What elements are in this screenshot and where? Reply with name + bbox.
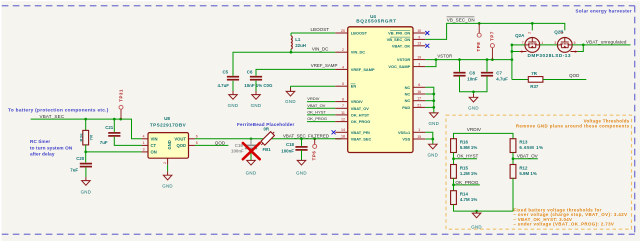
svg-text:GND: GND xyxy=(296,171,307,176)
U4 pin 4 VREF_SAMP xyxy=(335,68,347,70)
wires around Q2A/Q2B xyxy=(512,44,525,46)
wire pin9 up to VB_SEC_ON rail xyxy=(425,23,565,39)
svg-text:0R: 0R xyxy=(264,127,270,132)
wire EN to GND xyxy=(291,85,336,87)
svg-text:OK_HYST: OK_HYST xyxy=(457,153,479,158)
U8 pin 2 GND bottom xyxy=(167,158,169,165)
U4 pin 8 VRDIV xyxy=(335,101,347,103)
svg-text:To battery (protection compone: To battery (protection components etc.) xyxy=(8,108,109,113)
svg-text:5.9M 1%: 5.9M 1% xyxy=(519,171,536,176)
U4 pin 3 VOC_SAMP xyxy=(413,66,425,68)
svg-text:TP7: TP7 xyxy=(489,31,494,41)
svg-text:VBAT_PRI: VBAT_PRI xyxy=(351,130,370,135)
svg-text:6.65M 1%: 6.65M 1% xyxy=(519,145,543,150)
U4 pin 20 LBOOST xyxy=(335,32,347,34)
op U4 BQ25505RGRT body xyxy=(348,27,413,153)
resistor R16 xyxy=(451,139,457,153)
U4 pin 21 PAD xyxy=(413,106,425,108)
svg-text:GND: GND xyxy=(428,121,439,126)
capacitor C5 xyxy=(227,77,239,80)
svg-text:QOD: QOD xyxy=(215,140,225,145)
capacitor C18 xyxy=(300,137,303,140)
U4 pin 15 VSS xyxy=(413,138,425,140)
ground below C5 xyxy=(232,81,234,91)
wire VREF_SAMP xyxy=(256,69,335,75)
svg-text:7: 7 xyxy=(342,104,344,108)
svg-text:7R: 7R xyxy=(531,71,537,76)
svg-text:OK_PROG: OK_PROG xyxy=(351,119,370,124)
svg-text:4.7uF: 4.7uF xyxy=(218,83,230,88)
label QOD stub xyxy=(195,144,229,146)
svg-text:6: 6 xyxy=(196,134,198,138)
svg-text:TPS22917DBV: TPS22917DBV xyxy=(150,122,187,127)
inductor L1 xyxy=(291,32,335,34)
U4 pin 5 EN xyxy=(335,85,347,87)
ground below C7/C8 xyxy=(472,90,475,93)
svg-text:5: 5 xyxy=(574,41,576,45)
orange dashed box Voltage Thresholds xyxy=(446,115,632,229)
svg-text:R36: R36 xyxy=(78,133,83,142)
resistor R36 xyxy=(85,119,87,130)
U4 pin 1 VSS=1 xyxy=(413,131,425,133)
svg-text:1: 1 xyxy=(418,128,420,132)
svg-text:Remove GND plane around these: Remove GND plane around these components xyxy=(516,123,630,128)
svg-text:4.7uF: 4.7uF xyxy=(496,76,508,81)
svg-text:L1: L1 xyxy=(295,37,301,42)
svg-text:10nF 1% C0G: 10nF 1% C0G xyxy=(244,83,273,88)
wire VIN_DC xyxy=(233,52,335,75)
svg-text:5.9M 1%: 5.9M 1% xyxy=(460,145,477,150)
resistor R13 xyxy=(512,138,514,140)
svg-text:VREF_SAMP: VREF_SAMP xyxy=(311,63,338,68)
svg-text:2: 2 xyxy=(342,48,344,52)
svg-text:C6: C6 xyxy=(247,69,253,74)
svg-text:TP8: TP8 xyxy=(476,42,481,52)
svg-text:R37: R37 xyxy=(530,84,539,89)
pin 8 stub and jumper xyxy=(519,51,526,53)
DNP red X over C19 xyxy=(243,143,260,159)
node ON / wire to U8 ON pin xyxy=(84,151,87,154)
testpoint TP6 xyxy=(313,137,316,140)
svg-text:BQ25505RGRT: BQ25505RGRT xyxy=(356,18,397,23)
svg-text:GND: GND xyxy=(162,183,173,188)
wire Q2A gate xyxy=(531,23,533,30)
testpoint TP7 xyxy=(491,58,494,61)
svg-text:C7: C7 xyxy=(496,70,502,75)
svg-text:PAD: PAD xyxy=(402,105,410,110)
U8 pin 3 ON xyxy=(142,151,148,153)
svg-text:EN: EN xyxy=(351,84,357,89)
junction TP8 xyxy=(478,22,481,25)
U4 pin 18 VBAT_SEC xyxy=(335,138,347,140)
svg-text:OK_HYST: OK_HYST xyxy=(307,110,326,115)
U8 pin 4 VIN xyxy=(142,138,148,140)
svg-text:5: 5 xyxy=(342,82,344,86)
pin 6 stub and jumper xyxy=(571,51,578,53)
ground below U8 xyxy=(167,165,169,172)
ground below VSS xyxy=(432,143,434,145)
svg-text:VIN: VIN xyxy=(151,136,158,141)
svg-text:C5: C5 xyxy=(223,69,229,74)
svg-text:8: 8 xyxy=(342,98,344,102)
svg-text:12: 12 xyxy=(341,118,345,122)
U4 pin 16 NC xyxy=(413,93,425,95)
resistor R14 xyxy=(451,191,457,205)
capacitor C20 xyxy=(85,152,87,163)
svg-text:4: 4 xyxy=(143,134,145,138)
svg-text:LBOOST: LBOOST xyxy=(351,31,368,36)
svg-text:VRDIV: VRDIV xyxy=(307,96,320,101)
svg-text:13: 13 xyxy=(417,42,421,46)
svg-text:VBAT_SEC: VBAT_SEC xyxy=(40,114,65,119)
svg-text:VB_SEC_ON: VB_SEC_ON xyxy=(447,18,475,23)
svg-text:LBOOST: LBOOST xyxy=(311,27,330,32)
testpoint TP31 xyxy=(120,109,122,119)
transistor Q2B xyxy=(557,38,572,53)
U4 pin 9 VB_SEC_ON xyxy=(413,38,425,40)
svg-text:VSS: VSS xyxy=(402,137,410,142)
svg-text:17: 17 xyxy=(417,97,421,101)
svg-text:NC: NC xyxy=(405,85,411,90)
NC pins to GND xyxy=(425,87,434,113)
svg-text:U8: U8 xyxy=(164,116,170,121)
capacitor C21 xyxy=(113,119,115,132)
svg-text:VREF_SAMP: VREF_SAMP xyxy=(351,67,375,72)
svg-text:VBAT_OV: VBAT_OV xyxy=(307,103,325,108)
U8 pin 5 QOD xyxy=(189,144,195,146)
svg-text:GND: GND xyxy=(228,103,239,108)
svg-text:Q2A: Q2A xyxy=(515,33,525,38)
svg-text:VBAT_OK: VBAT_OK xyxy=(392,43,410,48)
svg-text:NC: NC xyxy=(405,92,411,97)
svg-text:GND: GND xyxy=(427,152,438,157)
svg-text:4.7M 1%: 4.7M 1% xyxy=(460,197,477,202)
svg-text:4: 4 xyxy=(342,65,344,69)
svg-text:GND: GND xyxy=(468,106,479,111)
U4 pin 6 NC xyxy=(413,86,425,88)
svg-text:OK_PROG: OK_PROG xyxy=(307,116,327,121)
svg-text:DMP3028LSD-13: DMP3028LSD-13 xyxy=(528,53,572,58)
svg-text:R14: R14 xyxy=(460,192,469,197)
svg-text:OK_PROG: OK_PROG xyxy=(455,180,479,185)
svg-text:NC: NC xyxy=(405,98,411,103)
svg-text:10nF: 10nF xyxy=(467,76,478,81)
ground below C6 xyxy=(255,81,257,91)
U4 pin 7 VBAT_OV xyxy=(335,107,347,109)
svg-text:22uH: 22uH xyxy=(295,43,306,48)
U8 pin 1 CT xyxy=(142,144,148,146)
svg-text:FB1: FB1 xyxy=(263,147,272,152)
wire VSTOR rail xyxy=(425,59,512,61)
svg-text:100nF: 100nF xyxy=(281,149,294,154)
svg-text:2: 2 xyxy=(163,162,167,164)
svg-text:R15: R15 xyxy=(460,165,469,170)
svg-text:R13: R13 xyxy=(519,140,528,145)
svg-text:RC timer: RC timer xyxy=(30,139,50,144)
svg-text:VBAT_OV: VBAT_OV xyxy=(351,106,369,111)
svg-text:QOD: QOD xyxy=(176,143,186,148)
ground below divider xyxy=(475,210,478,213)
svg-text:VBAT_OV: VBAT_OV xyxy=(517,153,539,158)
svg-text:3: 3 xyxy=(554,41,556,45)
svg-text:20: 20 xyxy=(341,29,345,33)
U8 pin 6 VOUT xyxy=(189,138,195,140)
junction Q2A gate xyxy=(531,22,534,25)
transistor Q2A xyxy=(525,38,540,53)
svg-text:16: 16 xyxy=(417,90,421,94)
wire VBAT_SEC horizontal xyxy=(31,119,142,139)
capacitor C7 xyxy=(486,58,489,61)
node OK_PROG xyxy=(453,178,455,190)
U4 pin 19 VSTOR xyxy=(413,59,425,61)
resistor R15 xyxy=(451,165,457,179)
ground below C20 xyxy=(85,168,87,177)
svg-text:to turn system ON: to turn system ON xyxy=(30,145,73,150)
svg-text:VIN_DC: VIN_DC xyxy=(351,50,365,55)
U4 pin 12 OK_PROG xyxy=(335,121,347,123)
svg-text:7R: 7R xyxy=(89,134,94,140)
ground below EN xyxy=(290,86,292,88)
ground below NC xyxy=(433,112,435,114)
resistor R37 xyxy=(512,79,528,81)
resistor R12 xyxy=(510,165,516,179)
svg-text:TP31: TP31 xyxy=(119,89,124,102)
svg-text:GND: GND xyxy=(251,103,262,108)
svg-text:1: 1 xyxy=(143,141,145,145)
svg-text:18: 18 xyxy=(341,135,345,139)
svg-text:7uF: 7uF xyxy=(100,140,108,145)
svg-text:VSTOR: VSTOR xyxy=(437,53,452,58)
svg-text:VB_SEC_ON: VB_SEC_ON xyxy=(387,37,411,42)
svg-text:VBAT_unregulated: VBAT_unregulated xyxy=(586,40,627,45)
svg-text:VSTOR: VSTOR xyxy=(397,57,411,62)
svg-text:C21: C21 xyxy=(105,125,114,130)
U4 pin 2 VIN_DC xyxy=(335,51,347,53)
junction TP31 xyxy=(119,118,122,121)
svg-text:VBAT_SEC_FILTERED: VBAT_SEC_FILTERED xyxy=(283,133,329,138)
label stubs VRDIV VBAT_OV OK_HYST OK_PROG xyxy=(307,101,335,103)
svg-text:R16: R16 xyxy=(460,140,469,145)
wire VRDIV top xyxy=(454,133,514,138)
svg-text:7: 7 xyxy=(522,41,524,45)
node VBAT_OV xyxy=(512,153,514,165)
U4 pin 10 VB_PRI_ON xyxy=(413,32,425,34)
svg-text:ON: ON xyxy=(151,150,157,155)
bottom wire of divider xyxy=(454,205,514,212)
svg-text:VRDIV: VRDIV xyxy=(351,99,363,104)
wire VOC_SAMP to VSTOR xyxy=(425,60,436,67)
svg-text:3: 3 xyxy=(418,63,420,67)
svg-text:after delay: after delay xyxy=(30,152,55,157)
svg-text:4: 4 xyxy=(560,32,564,34)
svg-text:7uF: 7uF xyxy=(70,168,78,173)
capacitor C19 (DNP, crossed) xyxy=(250,137,253,140)
svg-text:VOC_SAMP: VOC_SAMP xyxy=(388,64,410,69)
svg-text:2: 2 xyxy=(527,32,531,34)
svg-text:GND: GND xyxy=(471,224,482,229)
U4 pin 11 OK_HYST xyxy=(335,114,347,116)
svg-text:VSS=1: VSS=1 xyxy=(398,130,411,135)
svg-text:11: 11 xyxy=(341,111,345,115)
svg-text:GND: GND xyxy=(246,171,257,176)
svg-text:QOD: QOD xyxy=(569,73,579,78)
U4 pin 13 VBAT_OK xyxy=(413,45,425,47)
no-connect X on pin 14 xyxy=(332,130,336,134)
no-connect X pin 10 xyxy=(425,31,429,35)
svg-text:TP6: TP6 xyxy=(311,151,316,161)
svg-text:19: 19 xyxy=(417,56,421,60)
op U8 load switch TPS22917DBV body xyxy=(148,133,189,159)
wire U8 VOUT to U4 VBAT_SEC xyxy=(195,138,341,140)
svg-text:9: 9 xyxy=(418,35,420,39)
capacitor C8 xyxy=(458,58,461,61)
sheet dashed border xyxy=(2,5,635,7)
svg-text:10: 10 xyxy=(417,29,421,33)
ground below C18 xyxy=(301,159,303,161)
svg-text:14: 14 xyxy=(341,128,345,132)
testpoint TP8 xyxy=(478,23,480,33)
svg-text:VOUT: VOUT xyxy=(174,136,186,141)
svg-text:15: 15 xyxy=(417,135,421,139)
svg-text:CT: CT xyxy=(151,143,157,148)
svg-text:1.2M 1%: 1.2M 1% xyxy=(460,171,477,176)
svg-text:3: 3 xyxy=(143,147,145,151)
svg-text:5: 5 xyxy=(196,141,198,145)
svg-text:OK_HYST: OK_HYST xyxy=(351,112,370,117)
svg-text:VIN_DC: VIN_DC xyxy=(312,47,329,52)
capacitor C6 xyxy=(250,77,262,80)
svg-text:Solar energy harvester: Solar energy harvester xyxy=(576,8,632,13)
junction L1/VIN_DC xyxy=(290,51,293,54)
vertical VSTOR to Q2A source xyxy=(511,45,513,80)
junction R36 top xyxy=(84,118,87,121)
svg-text:VB_PRI_ON: VB_PRI_ON xyxy=(388,31,410,36)
svg-text:21: 21 xyxy=(417,103,421,107)
svg-text:C20: C20 xyxy=(76,156,85,161)
U4 pin 17 NC xyxy=(413,100,425,102)
U4 pin 14 VBAT_PRI xyxy=(335,131,347,133)
svg-text:1: 1 xyxy=(541,41,543,45)
svg-text:R12: R12 xyxy=(519,165,528,170)
svg-text:GND: GND xyxy=(285,99,296,104)
ground below C19 xyxy=(250,159,252,161)
svg-text:– under voltage (VBAT_OK_PROG): – under voltage (VBAT_OK_PROG): 2.73V xyxy=(513,222,614,227)
svg-text:VBAT_SEC: VBAT_SEC xyxy=(351,136,372,141)
svg-text:GND: GND xyxy=(81,190,92,195)
svg-text:GND: GND xyxy=(167,140,172,149)
node OK_HYST xyxy=(453,153,455,165)
svg-text:VRDIV: VRDIV xyxy=(467,127,482,132)
svg-text:100nF: 100nF xyxy=(231,149,244,154)
no-connect X pin 13 xyxy=(425,44,429,48)
VSS pins to GND xyxy=(425,132,433,144)
svg-text:C18: C18 xyxy=(286,142,295,147)
junction C21 top xyxy=(113,118,116,121)
svg-text:6: 6 xyxy=(418,83,420,87)
svg-text:C8: C8 xyxy=(469,70,475,75)
